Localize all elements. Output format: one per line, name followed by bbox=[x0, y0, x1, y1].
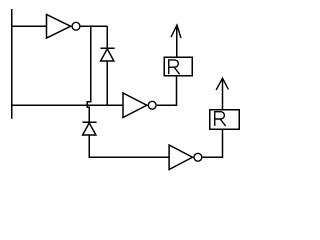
power arrow VCC1 head bbox=[171, 25, 181, 38]
resistor R2 value label bbox=[215, 112, 226, 126]
wire: D1 anode down to middle wire bbox=[106, 61, 108, 105]
diode D2 triangle bbox=[83, 123, 96, 135]
resistor R2 box bbox=[210, 110, 240, 130]
wire: top input wire from bus to U1 bbox=[12, 25, 47, 27]
power arrow VCC2 shaft bbox=[222, 79, 224, 110]
power arrow VCC2 head bbox=[216, 78, 228, 90]
wire: D2 anode down and right to U3 input bbox=[89, 135, 169, 157]
resistor R1 value label bbox=[169, 60, 180, 74]
wire: left vertical bus bbox=[11, 9, 13, 119]
resistor R1 box bbox=[164, 57, 192, 76]
diode D1 triangle bbox=[101, 49, 114, 61]
power arrow VCC1 shaft bbox=[176, 26, 178, 58]
op-amp U2 output bubble bbox=[148, 101, 156, 109]
wire: U1 output to top-right corner bbox=[81, 25, 108, 27]
wire: U2 output right and up to R1 bbox=[157, 76, 177, 106]
op-amp U3 inverter triangle bbox=[169, 145, 192, 170]
wire: U3 output right and up to R2 bbox=[203, 129, 223, 157]
wire: vertical from top-right corner down to D1 bbox=[106, 26, 108, 48]
op-amp U1 inverter triangle bbox=[47, 15, 71, 39]
wire: branch from top wire at node x=90.75 down with jog to D2 bbox=[87, 26, 91, 122]
op-amp U1 output bubble bbox=[72, 22, 80, 30]
diode D1 cathode bar bbox=[101, 47, 115, 49]
wire: middle horizontal wire from bus to U2 input bbox=[12, 104, 123, 106]
op-amp U3 output bubble bbox=[194, 153, 202, 161]
op-amp U2 inverter triangle bbox=[123, 93, 147, 118]
diode D2 cathode bar bbox=[83, 121, 97, 123]
